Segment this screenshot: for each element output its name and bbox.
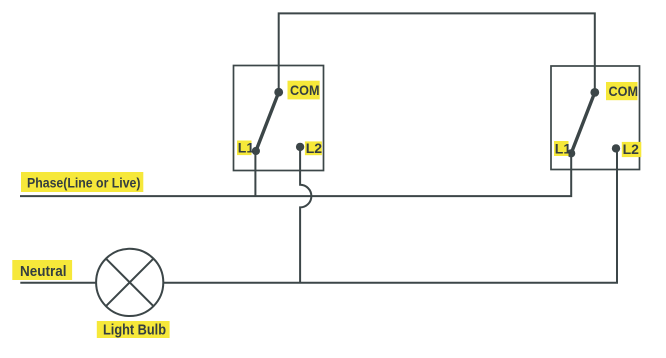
svg-text:COM: COM <box>609 83 639 99</box>
svg-text:COM: COM <box>290 82 320 98</box>
svg-text:L2: L2 <box>623 141 640 157</box>
svg-text:Phase(Line or Live): Phase(Line or Live) <box>27 175 141 191</box>
svg-text:L1: L1 <box>555 141 572 157</box>
svg-text:L2: L2 <box>306 140 323 156</box>
svg-text:L1: L1 <box>238 140 255 156</box>
svg-text:Light Bulb: Light Bulb <box>103 322 166 339</box>
svg-text:Neutral: Neutral <box>20 263 67 280</box>
